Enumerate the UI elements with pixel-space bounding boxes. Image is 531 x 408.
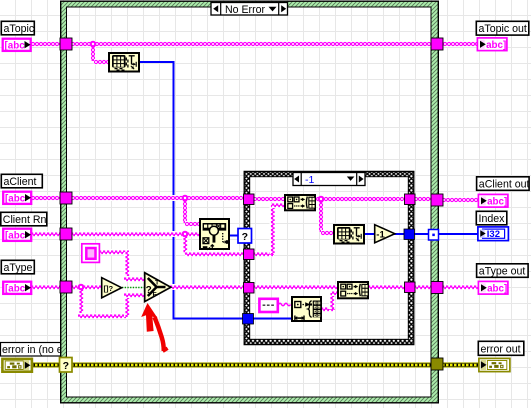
tunnel: aTopic left — [60, 38, 72, 50]
wire: Build Array 1 output (beaded) to tunnels and Array Size 2 — [316, 196, 479, 236]
wire: Build Array 2 output to aType out (rope) — [368, 284, 479, 290]
function: Search 1D Array — [200, 219, 229, 249]
svg-text:-1: -1 — [305, 174, 314, 186]
svg-text:[abc: [abc — [5, 41, 26, 52]
wire: Array Size 2 output to Decrement — [364, 233, 375, 235]
svg-text:Index: Index — [479, 213, 506, 225]
label: Index — [476, 211, 507, 225]
tunnel: Index out right (hollow) — [429, 230, 439, 241]
outer case structure frame (No Error case, green hatched border) — [61, 1, 439, 403]
svg-text:[abc: [abc — [5, 231, 26, 242]
inner case structure frame (-1 case, ring pattern border) — [244, 171, 414, 344]
wire: Select output to inner structure aType tunnel (rope) — [170, 284, 338, 290]
indicator terminal: aClient out [abc] — [478, 194, 508, 207]
svg-text:?: ? — [242, 231, 248, 243]
svg-text:No Error: No Error — [225, 4, 265, 16]
indicator terminal: Index I32 — [478, 227, 509, 241]
control terminal: aType [abc] — [3, 282, 31, 295]
label: aClient out — [477, 177, 530, 191]
wire: aTopic string array (beaded) — [31, 41, 478, 65]
function: Build Array 2 — [338, 282, 368, 298]
tunnel: inner dimension size left (blue) — [243, 314, 254, 325]
svg-text:[]?: []? — [104, 284, 114, 293]
svg-text:abc]: abc] — [487, 284, 507, 295]
control terminal: Client Rn [abc] — [3, 229, 31, 242]
control terminal: aTopic [abc] — [3, 39, 31, 52]
tunnel: Client Rn left — [60, 228, 72, 240]
tunnel: inner aType left — [244, 283, 255, 294]
inner case selector label "-1" — [293, 173, 365, 187]
wire: Array Size 1 output to inner structure (I32 blue) — [140, 62, 291, 319]
tunnel: aTopic out right — [431, 38, 443, 50]
svg-text:aType out: aType out — [479, 266, 526, 278]
indicator terminal: error out cluster — [479, 358, 510, 371]
junction on aType wire — [78, 284, 85, 291]
function: Decrement (-1) — [375, 225, 395, 243]
outer case selector label "No Error" — [211, 3, 288, 17]
tunnel: inner index out right (blue) — [404, 229, 415, 240]
svg-text:-1: -1 — [376, 230, 385, 241]
tunnel: inner aClient out right — [405, 194, 416, 205]
junction on aTopic wire — [90, 41, 97, 48]
svg-text:F: F — [153, 292, 157, 299]
constant: string "---" — [259, 299, 277, 312]
tunnel: error out right — [431, 358, 443, 370]
tunnel: aType out right — [431, 282, 443, 294]
wire: aClient string array (beaded) — [31, 195, 285, 227]
svg-text:aType: aType — [4, 262, 33, 274]
svg-text:aClient: aClient — [4, 176, 37, 188]
wire: Index output through outer tunnel to I32 indicator — [414, 233, 478, 235]
svg-text:Client Rn: Client Rn — [3, 214, 47, 226]
tunnel: inner aClient left — [244, 194, 255, 205]
svg-text:error out: error out — [481, 343, 521, 355]
label: error out — [478, 341, 524, 355]
function: Initialize Array — [292, 297, 321, 321]
svg-text:aClient out: aClient out — [479, 179, 530, 191]
wire: Initialize Array output to Build Array 2 (rope) — [321, 290, 338, 312]
wire: boolean from Empty String/Path? to Select (green dotted) — [122, 287, 145, 289]
wire: Decrement output to inner tunnel — [394, 233, 405, 235]
junction on aClient wire — [182, 195, 189, 202]
label: aClient — [1, 174, 42, 188]
tunnel: aType left — [60, 281, 72, 293]
wire: string constant to Initialize Array (thin wavy string) — [279, 303, 291, 306]
control terminal: aClient [abc] — [3, 192, 31, 205]
label: Client Rn — [1, 212, 47, 226]
tunnel: inner Client Rn left — [244, 249, 255, 260]
inner case selector terminal (?) — [238, 229, 252, 244]
svg-text:I32: I32 — [487, 229, 500, 240]
svg-text:[abc: [abc — [5, 284, 26, 295]
wire: aType string array (rope) — [31, 284, 145, 319]
wire: error in to selector to error out (yellow/black cable) — [31, 362, 480, 368]
indicator terminal: aType out [abc] — [478, 281, 508, 294]
tunnel: aClient out right — [431, 194, 443, 206]
error in (no error) label (partly under structure border) — [1, 343, 83, 357]
junction on Build Array 1 output — [318, 196, 325, 203]
red annotation arrow — [141, 303, 167, 351]
svg-text:[abc: [abc — [5, 194, 26, 205]
function: Build Array 1 — [285, 195, 315, 210]
function: Select — [145, 273, 171, 302]
svg-text:abc]: abc] — [487, 197, 507, 208]
label: aType out — [477, 264, 528, 278]
outer case selector terminal (?) — [60, 358, 73, 373]
svg-text:aTopic: aTopic — [4, 23, 35, 35]
label: aType — [1, 260, 34, 274]
svg-text:?: ? — [63, 360, 69, 372]
function: Array Size 2 — [334, 225, 364, 244]
tunnel: inner aType out right — [405, 282, 416, 293]
tunnel: aClient left — [60, 192, 72, 204]
indicator terminal: aTopic out [abc] — [477, 38, 507, 51]
control terminal: error in cluster — [2, 359, 32, 372]
wire: Search 1D Array index output to inner case selector — [229, 235, 239, 237]
label: aTopic out — [476, 21, 529, 35]
junction on Client Rn wire — [182, 231, 189, 238]
constant: empty string array — [82, 244, 100, 263]
wire: empty array constant to Select true input (rope) — [99, 249, 145, 282]
function: Empty String/Path? — [102, 278, 122, 298]
svg-text:abc]: abc] — [486, 40, 506, 51]
svg-text:aTopic out: aTopic out — [479, 23, 527, 35]
label: aTopic — [1, 21, 35, 35]
wire: Client Rn string array (rope) — [31, 202, 285, 257]
function: Array Size 1 — [109, 53, 139, 72]
